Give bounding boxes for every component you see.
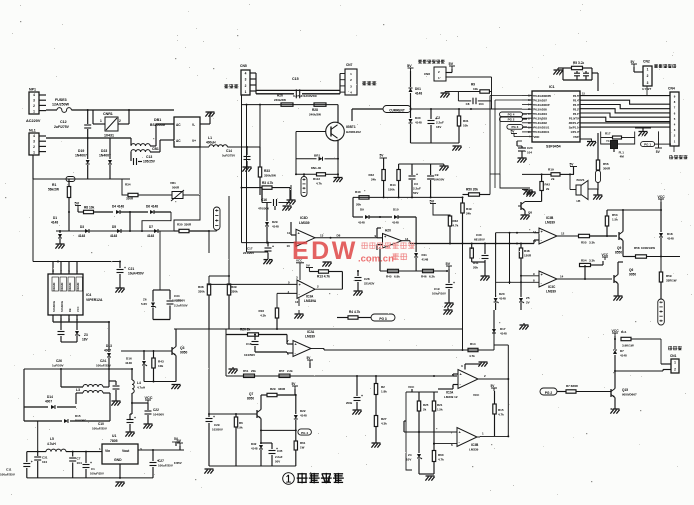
- connector NL1: [29, 133, 39, 155]
- svg-text:CNR1: CNR1: [103, 112, 113, 116]
- wire drive down: [660, 257, 662, 273]
- svg-text:4: 4: [33, 134, 35, 138]
- wire row minus input: [496, 281, 539, 283]
- wire smps feed to L5: [37, 421, 39, 452]
- svg-text:D15: D15: [75, 414, 81, 418]
- svg-text:Vin: Vin: [105, 449, 110, 453]
- svg-text:4.7uH: 4.7uH: [137, 386, 145, 390]
- svg-text:C21: C21: [128, 267, 134, 271]
- svg-text:NP1: NP1: [29, 88, 36, 92]
- wire comparator plus rail: [209, 283, 297, 285]
- wire IC2A upper out: [311, 348, 324, 350]
- wire emitter to PG4 column: [261, 429, 296, 431]
- svg-text:4.3k: 4.3k: [381, 422, 387, 426]
- svg-text:+: +: [435, 117, 437, 121]
- svg-text:D23: D23: [101, 149, 107, 153]
- wire IC3B lower out: [477, 436, 480, 438]
- svg-text:4007: 4007: [104, 349, 111, 353]
- svg-text:4.7k: 4.7k: [498, 413, 504, 417]
- svg-text:R17: R17: [605, 132, 611, 136]
- svg-text:5V: 5V: [75, 201, 80, 205]
- svg-text:R49: R49: [466, 207, 472, 211]
- svg-text:300R: 300R: [603, 167, 611, 171]
- node PG2: [500, 117, 523, 122]
- capacitor C33: [356, 376, 358, 396]
- svg-text:104/50V: 104/50V: [244, 353, 255, 357]
- svg-text:R16: R16: [258, 309, 264, 313]
- svg-text:+: +: [124, 266, 126, 270]
- svg-text:2uF/275V: 2uF/275V: [54, 125, 70, 129]
- svg-text:P2.4: P2.4: [573, 98, 579, 102]
- svg-text:R51: R51: [243, 369, 249, 373]
- wire IC3D output: [315, 237, 377, 239]
- svg-text:1: 1: [33, 110, 35, 114]
- capacitor C32: [484, 244, 486, 255]
- svg-text:104: 104: [42, 460, 47, 464]
- svg-text:6.8k: 6.8k: [394, 275, 400, 279]
- svg-text:D30: D30: [415, 116, 421, 120]
- svg-text:4.7k: 4.7k: [469, 354, 475, 358]
- wire rail 329 left: [174, 328, 226, 330]
- ground C20: [518, 157, 527, 159]
- wire 300V bus to SMPS: [33, 261, 120, 263]
- svg-text:105/25V: 105/25V: [143, 160, 156, 164]
- svg-text:R20 2k: R20 2k: [240, 328, 251, 332]
- svg-text:P2.1: P2.1: [573, 112, 579, 116]
- svg-text:1W: 1W: [300, 446, 305, 450]
- svg-text:4.7k: 4.7k: [453, 224, 459, 228]
- svg-text:CN4: CN4: [668, 87, 675, 91]
- svg-text:PG 1: PG 1: [644, 142, 651, 146]
- svg-text:VCC: VCC: [473, 393, 480, 397]
- svg-text:L3: L3: [76, 388, 80, 392]
- svg-text:10uF/450V: 10uF/450V: [128, 272, 145, 276]
- svg-text:R29: R29: [270, 387, 276, 391]
- svg-text:Q8: Q8: [528, 211, 532, 215]
- svg-text:+: +: [361, 394, 363, 398]
- svg-text:C19: C19: [434, 287, 440, 291]
- wire coil rail upper: [256, 89, 340, 91]
- svg-text:100uF/25V: 100uF/25V: [92, 427, 107, 431]
- svg-text:CN2: CN2: [643, 60, 650, 64]
- ground q8 aux: [522, 189, 528, 191]
- svg-text:330k: 330k: [198, 290, 205, 294]
- svg-text:104: 104: [77, 461, 82, 465]
- svg-text:Z5: Z5: [526, 296, 530, 300]
- svg-text:D6 4148: D6 4148: [146, 205, 158, 209]
- wire trunk x495: [495, 244, 497, 296]
- svg-text:100R/1/2W: 100R/1/2W: [641, 246, 655, 250]
- ground C19: [445, 302, 454, 304]
- svg-text:FUSE3: FUSE3: [55, 98, 67, 102]
- svg-text:R55: R55: [581, 241, 587, 245]
- svg-text:24k: 24k: [371, 178, 376, 182]
- svg-text:Rv1: Rv1: [621, 330, 627, 334]
- svg-text:+: +: [134, 416, 136, 420]
- svg-text:AC: AC: [176, 139, 181, 143]
- svg-text:3: 3: [647, 81, 649, 85]
- ground box: [229, 368, 238, 370]
- ground C21: [116, 287, 125, 289]
- svg-text:VIPER12A: VIPER12A: [86, 298, 103, 302]
- svg-text:LM339: LM339: [299, 221, 310, 225]
- svg-text:R53: R53: [612, 213, 618, 217]
- svg-text:P0.3/AD03: P0.3/AD03: [534, 117, 548, 121]
- svg-text:2.2uF: 2.2uF: [436, 121, 444, 125]
- svg-text:C31: C31: [42, 456, 48, 460]
- connector NP1: [29, 92, 39, 114]
- wire vr1 to r30 row: [174, 195, 200, 231]
- ground C17: [264, 259, 273, 261]
- svg-text:2V: 2V: [526, 301, 530, 305]
- wire trunk x462: [462, 243, 464, 350]
- op-amp IC2A lower: [458, 370, 478, 389]
- svg-text:R13 4.7k: R13 4.7k: [317, 275, 330, 279]
- wire trunk x229: [228, 196, 230, 284]
- svg-text:1: 1: [33, 150, 35, 154]
- wire rail 232: [496, 232, 534, 234]
- svg-text:P0.6/AD06/P: P0.6/AD06/P: [534, 103, 550, 107]
- svg-text:P2.5: P2.5: [573, 94, 579, 98]
- svg-text:2: 2: [119, 119, 121, 123]
- svg-text:12: 12: [295, 300, 299, 304]
- ground buzzer: [593, 194, 602, 196]
- ground far left: [520, 324, 529, 326]
- svg-text:Y4: Y4: [606, 139, 610, 143]
- ground aux left: [290, 185, 292, 200]
- svg-text:DRAIN: DRAIN: [76, 283, 80, 291]
- svg-text:7805: 7805: [110, 439, 118, 443]
- svg-text:20k: 20k: [356, 203, 361, 207]
- node PG1: [641, 142, 655, 147]
- svg-text:F/25V: F/25V: [174, 461, 182, 465]
- svg-text:R3 4.7k: R3 4.7k: [262, 181, 273, 185]
- caption main board circuit: [283, 473, 295, 485]
- svg-text:C10: C10: [98, 422, 104, 426]
- svg-text:12: 12: [561, 232, 565, 236]
- svg-text:P0.3/AD07: P0.3/AD07: [534, 98, 548, 102]
- svg-text:8N1-40: 8N1-40: [311, 166, 321, 170]
- wire buzzer row: [522, 173, 551, 175]
- svg-text:C29: C29: [214, 423, 220, 427]
- node PG4 pill: [298, 429, 312, 435]
- svg-text:8050: 8050: [247, 397, 254, 401]
- node CURRENT: [383, 106, 411, 113]
- ground bottom rail: [205, 468, 214, 470]
- svg-text:NL1: NL1: [29, 129, 36, 133]
- wire trunk x243: [241, 95, 243, 243]
- wire trunk x209: [208, 231, 210, 253]
- svg-text:R9: R9: [471, 83, 475, 87]
- svg-text:Sa/P1.1: Sa/P1.1: [569, 126, 579, 130]
- capacitor C25: [115, 381, 117, 385]
- wire trunk x246: [246, 105, 248, 252]
- svg-text:C24: C24: [100, 359, 106, 363]
- svg-text:104: 104: [527, 151, 532, 155]
- svg-text:GND: GND: [114, 458, 122, 462]
- svg-text:R28: R28: [312, 108, 318, 112]
- svg-text:120R: 120R: [524, 254, 532, 258]
- svg-text:C20: C20: [527, 146, 533, 150]
- svg-text:R27: R27: [381, 417, 387, 421]
- svg-text:IC1: IC1: [549, 85, 555, 89]
- svg-text:P0.5/AD05: P0.5/AD05: [534, 107, 548, 111]
- svg-text:R21: R21: [437, 403, 443, 407]
- node gate drive oval: [658, 299, 665, 325]
- svg-text:R31: R31: [463, 119, 469, 123]
- svg-text:R42: R42: [368, 173, 374, 177]
- svg-text:C12: C12: [60, 120, 67, 124]
- svg-text:R1: R1: [52, 183, 56, 187]
- svg-text:P0.4/AD04: P0.4/AD04: [534, 112, 548, 116]
- svg-text:3.9K/1W: 3.9K/1W: [622, 344, 634, 348]
- svg-text:BUZ1: BUZ1: [577, 178, 585, 182]
- svg-text:4148: 4148: [358, 221, 365, 225]
- svg-text:R25: R25: [423, 403, 429, 407]
- svg-text:PG 2: PG 2: [545, 391, 552, 395]
- svg-text:C1: C1: [91, 467, 95, 471]
- svg-text:DRAIN: DRAIN: [68, 283, 72, 291]
- capacitor C5a: [574, 72, 580, 74]
- svg-text:2.2k: 2.2k: [287, 369, 293, 373]
- capacitor C23: [60, 322, 62, 330]
- svg-text:+: +: [272, 245, 274, 249]
- svg-text:AC: AC: [176, 123, 181, 127]
- svg-text:104/50V: 104/50V: [153, 413, 164, 417]
- ground thermistor divider: [445, 91, 458, 93]
- svg-text:10V: 10V: [406, 458, 411, 462]
- svg-text:D11: D11: [422, 253, 428, 257]
- wire AC live rail: [71, 109, 93, 111]
- svg-text:VCC: VCC: [76, 306, 80, 312]
- paper speckle noise: [226, 78, 227, 79]
- svg-text:4148: 4148: [499, 297, 506, 301]
- svg-text:6.2k: 6.2k: [429, 275, 435, 279]
- svg-text:1: 1: [245, 90, 247, 94]
- ground Q15: [611, 408, 620, 410]
- svg-text:R4 4.7k: R4 4.7k: [349, 310, 360, 314]
- svg-text:100uF/25V: 100uF/25V: [158, 464, 173, 468]
- svg-text:R57: R57: [279, 369, 285, 373]
- wire box outline: [226, 329, 463, 376]
- svg-text:18V: 18V: [82, 338, 89, 342]
- svg-text:Z6: Z6: [143, 298, 147, 302]
- svg-text:100uF/25V: 100uF/25V: [96, 364, 111, 368]
- svg-text:1/P1.0: 1/P1.0: [571, 130, 579, 134]
- wire smallrail 164: [399, 163, 444, 165]
- ground D1: [56, 243, 65, 245]
- svg-text:R32: R32: [453, 219, 459, 223]
- wire bottom rail q7: [209, 465, 296, 467]
- svg-text:330R: 330R: [184, 223, 192, 227]
- svg-text:D1: D1: [53, 216, 57, 220]
- svg-text:VDD: VDD: [534, 135, 540, 139]
- svg-text:R8 10k: R8 10k: [84, 206, 95, 210]
- svg-text:+: +: [157, 459, 159, 463]
- svg-text:Q15: Q15: [622, 388, 628, 392]
- svg-text:Z3: Z3: [84, 333, 88, 337]
- wire coil rail lower: [256, 93, 294, 95]
- svg-text:IGBT1: IGBT1: [346, 125, 356, 129]
- svg-text:1: 1: [647, 68, 649, 72]
- svg-text:4148: 4148: [392, 221, 399, 225]
- svg-text:P2.3: P2.3: [573, 103, 579, 107]
- ground r16: [298, 310, 300, 314]
- ground R41: [481, 275, 490, 277]
- svg-text:P2.0/T0: P2.0/T0: [569, 117, 579, 121]
- ground IGBT emitter: [337, 174, 339, 177]
- svg-text:+: +: [213, 415, 215, 419]
- wire VCC rail smps: [24, 368, 132, 370]
- svg-text:9050: 9050: [629, 273, 636, 277]
- svg-text:C26: C26: [56, 359, 62, 363]
- svg-text:VR1: VR1: [170, 181, 176, 185]
- svg-text:1: 1: [674, 361, 676, 365]
- svg-text:IC3B: IC3B: [546, 216, 554, 220]
- svg-text:+C25: +C25: [174, 299, 182, 303]
- wire mcu right pin wires to CN4: [580, 95, 670, 97]
- svg-text:C9: C9: [435, 173, 439, 177]
- wire fan return: [615, 370, 663, 372]
- svg-text:2: 2: [647, 74, 649, 78]
- svg-text:VCC: VCC: [612, 329, 620, 333]
- svg-text:VCC: VCC: [602, 253, 609, 257]
- svg-text:R7 680R: R7 680R: [566, 384, 579, 388]
- svg-text:R33: R33: [264, 169, 270, 173]
- svg-text:PG 2: PG 2: [508, 117, 515, 121]
- svg-text:DRAIN: DRAIN: [52, 283, 56, 291]
- wire sense bottom rail: [411, 142, 460, 144]
- svg-text:Q3: Q3: [180, 346, 185, 350]
- wire CNR1 to bridge: [118, 123, 129, 125]
- svg-text:LM339A: LM339A: [304, 299, 317, 303]
- wire primary DC bus: [32, 179, 34, 262]
- svg-text:IC3C: IC3C: [548, 285, 556, 289]
- svg-text:5V: 5V: [407, 64, 412, 68]
- svg-text:CB1: CB1: [152, 147, 159, 151]
- node PG3 pill: [371, 314, 395, 321]
- wire gate rail: [242, 104, 339, 106]
- svg-text:56k/2W: 56k/2W: [48, 188, 59, 192]
- svg-text:100uF/25V: 100uF/25V: [0, 473, 15, 477]
- svg-text:10431: 10431: [104, 134, 114, 138]
- op-amp IC3A LM339A: [297, 280, 315, 298]
- svg-text:3: 3: [245, 78, 247, 82]
- svg-text:V-: V-: [192, 123, 195, 127]
- node PG4: [500, 112, 523, 117]
- svg-text:R14: R14: [470, 342, 476, 346]
- node flag oval: [596, 171, 601, 183]
- capacitor C21 10uF/450V: [119, 262, 121, 269]
- svg-text:4148: 4148: [422, 258, 429, 262]
- svg-text:4: 4: [33, 93, 35, 97]
- wire IC3A output: [315, 288, 342, 290]
- wire vr1 to bridge: [199, 147, 201, 195]
- svg-text:P0.0/AD01/1: P0.0/AD01/1: [534, 126, 550, 130]
- svg-text:IC3A: IC3A: [306, 295, 314, 299]
- wire comparator minus wire: [277, 292, 297, 294]
- svg-text:Q9: Q9: [617, 246, 621, 250]
- svg-text:P2.2: P2.2: [573, 107, 579, 111]
- svg-text:24k: 24k: [466, 212, 471, 216]
- svg-text:R39: R39: [231, 285, 237, 289]
- ground z4 r60: [419, 473, 434, 475]
- svg-text:2: 2: [245, 84, 247, 88]
- svg-text:+: +: [276, 447, 278, 451]
- svg-text:PG 3: PG 3: [379, 317, 386, 321]
- svg-text:4B/P1.2: 4B/P1.2: [569, 121, 579, 125]
- svg-text:20k: 20k: [251, 369, 256, 373]
- svg-text:D22: D22: [300, 409, 306, 413]
- wire main rail 376: [226, 375, 457, 377]
- svg-text:BR1: BR1: [314, 154, 320, 158]
- svg-text:+: +: [453, 281, 455, 285]
- svg-text:D3: D3: [80, 225, 84, 229]
- svg-text:4.3k: 4.3k: [260, 314, 266, 318]
- svg-text:11: 11: [533, 230, 536, 234]
- choke CB1: [110, 137, 131, 139]
- svg-text:R15: R15: [498, 408, 504, 412]
- svg-text:R34: R34: [125, 183, 131, 187]
- svg-text:R6: R6: [239, 421, 243, 425]
- svg-text:33R/1W: 33R/1W: [666, 279, 677, 283]
- svg-text:R38: R38: [198, 285, 204, 289]
- svg-text:4148: 4148: [415, 92, 422, 96]
- svg-text:R48: R48: [524, 249, 530, 253]
- svg-text:5.6V: 5.6V: [141, 302, 147, 306]
- svg-text:1.8k: 1.8k: [381, 390, 387, 394]
- node label pill vertical: [303, 174, 305, 176]
- svg-text:D29: D29: [272, 220, 278, 224]
- wire q3 bottom: [144, 381, 176, 383]
- svg-text:2k: 2k: [546, 187, 550, 191]
- svg-text:IC3D: IC3D: [300, 216, 308, 220]
- supply 5V pg1: [658, 131, 660, 148]
- svg-text:8550: 8550: [615, 251, 622, 255]
- svg-text:LM339: LM339: [469, 448, 479, 452]
- ground Q3 emitter: [172, 384, 181, 386]
- svg-text:2.2uF: 2.2uF: [275, 455, 283, 459]
- svg-text:240k/2W: 240k/2W: [309, 113, 321, 117]
- svg-text:104/50V: 104/50V: [434, 178, 445, 182]
- svg-text:R40: R40: [355, 190, 361, 194]
- svg-text:PG 4: PG 4: [508, 112, 515, 116]
- svg-text:CN5: CN5: [240, 64, 247, 68]
- wire mcu lower-left hook: [500, 174, 530, 188]
- svg-text:2k: 2k: [423, 408, 427, 412]
- svg-text:2.2uF: 2.2uF: [413, 187, 421, 191]
- wire 5V output: [138, 449, 184, 451]
- wire trunk x509: [509, 233, 511, 284]
- svg-text:U1: U1: [112, 434, 116, 438]
- svg-text:CN6: CN6: [424, 72, 430, 76]
- ground top k: [444, 309, 453, 311]
- svg-text:4148: 4148: [78, 234, 85, 238]
- svg-text:Q6: Q6: [629, 268, 633, 272]
- wire bottom-left NTC rail: [33, 178, 130, 180]
- ground IC2A lower: [464, 364, 466, 370]
- svg-text:200k: 200k: [346, 401, 353, 405]
- svg-text:10k: 10k: [158, 364, 163, 368]
- svg-text:D17: D17: [500, 327, 506, 331]
- svg-text:C30: C30: [476, 233, 482, 237]
- svg-text:D16: D16: [126, 357, 132, 361]
- node label oval sense: [214, 207, 221, 230]
- svg-text:4.7k: 4.7k: [316, 182, 322, 186]
- svg-text:R46: R46: [421, 275, 427, 279]
- svg-text:3: 3: [33, 139, 35, 143]
- svg-text:14: 14: [560, 275, 564, 279]
